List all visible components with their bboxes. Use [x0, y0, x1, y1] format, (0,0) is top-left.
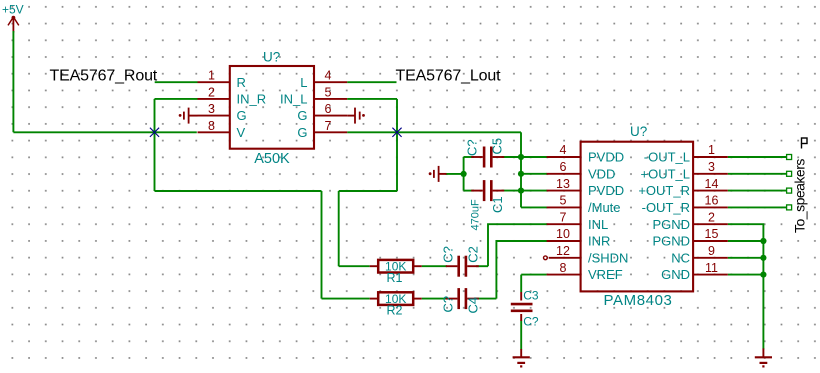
capacitor C5 — [465, 138, 505, 168]
wire C3 to ground — [520, 321, 522, 350]
capacitor C1 470uF — [470, 180, 506, 230]
svg-text:6: 6 — [560, 160, 567, 174]
capacitor at A50K pin 6 — [347, 108, 365, 124]
wire IN_R vertical drop — [154, 99, 156, 191]
svg-text:2: 2 — [708, 210, 715, 224]
wire pin 4 L to TEA5767_Lout — [347, 81, 396, 83]
wire C1 right lead — [502, 190, 522, 192]
speaker output pins — [787, 155, 792, 210]
svg-text:16: 16 — [705, 194, 719, 208]
junction PGND pin15 node — [760, 238, 766, 244]
capacitor C3 — [511, 288, 539, 328]
potentiometer U? A50K — [198, 50, 348, 168]
net label TEA5767_Lout — [396, 68, 502, 85]
svg-text:A50K: A50K — [254, 151, 290, 167]
wire C2 to riser — [476, 265, 488, 267]
wire IN_L vertical drop — [396, 99, 398, 191]
svg-text:PVDD: PVDD — [588, 183, 624, 198]
svg-text:C?: C? — [465, 139, 480, 156]
amplifier U? PAM8403 — [544, 124, 728, 309]
svg-text:4: 4 — [560, 143, 567, 157]
svg-text:+5V: +5V — [2, 3, 24, 17]
wire PGND pin 15 — [728, 240, 764, 242]
wire VDD pin 6 — [521, 173, 547, 175]
svg-text:3: 3 — [708, 160, 715, 174]
svg-text:8: 8 — [208, 119, 215, 133]
net label To_speakers — [792, 138, 808, 233]
junction PVDD pin4 node — [518, 154, 524, 160]
no-connect cross left — [150, 128, 159, 137]
junction VDD pin6 node — [518, 171, 524, 177]
svg-text:PGND: PGND — [652, 217, 690, 232]
wire supply bus drop to PAM — [520, 132, 522, 207]
wire IN_L down to R1 row — [338, 191, 340, 266]
wire NC pin 9 — [728, 257, 764, 259]
capacitor C4 — [441, 288, 481, 313]
svg-text:5: 5 — [560, 194, 567, 208]
wire +OUT_L to speaker — [728, 173, 787, 175]
svg-text:C2: C2 — [466, 246, 481, 263]
svg-text:PVDD: PVDD — [588, 150, 624, 165]
svg-text:12: 12 — [556, 244, 570, 258]
svg-text:NC: NC — [671, 250, 690, 265]
wire to R2 — [322, 298, 370, 300]
wire pin 5 IN_L horizontal — [347, 98, 397, 100]
svg-text:VREF: VREF — [588, 267, 623, 282]
svg-text:10: 10 — [556, 227, 570, 241]
svg-text:L: L — [300, 75, 307, 90]
svg-text:13: 13 — [556, 177, 570, 191]
svg-text:G: G — [297, 108, 307, 123]
svg-text:U?: U? — [263, 50, 280, 65]
wire VREF pin 8 — [521, 274, 546, 276]
wire +5V rail down — [12, 31, 14, 132]
svg-text:PGND: PGND — [652, 234, 690, 249]
ground at PAM8403 PGND — [755, 348, 772, 366]
junction cap bus left — [461, 171, 467, 177]
svg-text:C3: C3 — [523, 288, 539, 302]
resistor R1 10K — [370, 260, 422, 286]
svg-text:/Mute: /Mute — [588, 200, 621, 215]
wire C5 right lead — [502, 156, 522, 158]
svg-text:7: 7 — [325, 119, 332, 133]
wire C2 riser to INL — [488, 224, 547, 266]
wire -OUT_R to speaker — [728, 206, 787, 208]
wire 470uF cap to junction — [446, 173, 465, 175]
junction PVDD pin13 node — [518, 188, 524, 194]
svg-text:-OUT_L: -OUT_L — [644, 150, 690, 165]
svg-text:G: G — [237, 108, 247, 123]
wire PVDD pin 4 — [521, 156, 547, 158]
wire A50K pin 7 to supply bus — [347, 131, 521, 133]
power +5V symbol — [2, 3, 24, 33]
svg-text:2: 2 — [208, 85, 215, 99]
svg-text:V: V — [237, 125, 246, 140]
wire -OUT_L to speaker — [728, 156, 787, 158]
svg-text:+OUT_L: +OUT_L — [641, 166, 691, 181]
junction NC pin9 node — [760, 255, 766, 261]
svg-text:11: 11 — [705, 261, 718, 275]
wire C4 to riser — [476, 298, 496, 300]
wire cap left bus — [463, 157, 465, 191]
capacitor at A50K pin 3 — [179, 108, 198, 124]
svg-text:VDD: VDD — [588, 166, 615, 181]
wire C5 left lead — [464, 156, 474, 158]
wire to R1 — [339, 265, 370, 267]
svg-text:-OUT_R: -OUT_R — [642, 200, 690, 215]
svg-text:470uF: 470uF — [470, 199, 482, 230]
svg-text:GND: GND — [661, 267, 690, 282]
wire +OUT_R to speaker — [728, 190, 787, 192]
svg-text:7: 7 — [560, 210, 567, 224]
wire PGND pin 2 — [728, 224, 764, 349]
svg-text:9: 9 — [708, 244, 715, 258]
capacitor C2 — [441, 246, 481, 277]
svg-text:C4: C4 — [466, 297, 481, 314]
svg-text:/SHDN: /SHDN — [588, 250, 628, 265]
no-connect cross right — [392, 128, 401, 137]
svg-text:U?: U? — [630, 124, 647, 139]
svg-text:INR: INR — [588, 234, 610, 249]
wire GND pin 11 — [728, 274, 764, 276]
svg-text:R2: R2 — [387, 304, 403, 318]
svg-text:15: 15 — [705, 227, 719, 241]
svg-text:C?: C? — [441, 296, 456, 313]
svg-text:R: R — [237, 75, 246, 90]
wire IN_L across — [339, 190, 397, 192]
wire to /Mute pin 5 — [521, 206, 547, 208]
ground at C3 — [513, 349, 530, 366]
svg-text:C1: C1 — [490, 196, 505, 213]
svg-text:G: G — [297, 125, 307, 140]
svg-text:TEA5767_Rout: TEA5767_Rout — [50, 68, 158, 85]
wire R1 to C2 — [422, 265, 447, 267]
svg-text:4: 4 — [325, 69, 332, 83]
svg-text:IN_R: IN_R — [237, 92, 267, 107]
svg-text:To_speakers: To_speakers — [792, 159, 808, 233]
svg-text:C?: C? — [441, 246, 456, 263]
wire IN_R across — [155, 190, 322, 192]
svg-text:TEA5767_Lout: TEA5767_Lout — [396, 68, 502, 85]
svg-text:14: 14 — [705, 177, 719, 191]
net label TEA5767_Rout — [50, 68, 158, 85]
svg-text:6: 6 — [325, 102, 332, 116]
wire C4 riser to INR — [496, 241, 547, 299]
capacitor CP 470uF polarized plate — [429, 166, 447, 182]
wire IN_R down to R2 row — [321, 191, 323, 299]
svg-text:8: 8 — [560, 261, 567, 275]
wire VREF down to C3 — [520, 275, 522, 292]
wire pin 2 IN_R horizontal — [155, 98, 198, 100]
svg-text:+OUT_R: +OUT_R — [638, 183, 690, 198]
svg-text:INL: INL — [588, 217, 608, 232]
svg-text:PAM8403: PAM8403 — [604, 292, 673, 309]
svg-text:C?: C? — [523, 314, 539, 328]
svg-text:5: 5 — [325, 85, 332, 99]
svg-text:IN_L: IN_L — [280, 92, 307, 107]
svg-text:1: 1 — [208, 69, 215, 83]
wire C1 left lead — [464, 190, 474, 192]
svg-text:1: 1 — [708, 143, 715, 157]
svg-text:C5: C5 — [490, 138, 505, 155]
wire +5V rail to A50K pin 8 — [13, 131, 196, 133]
wire TEA5767_Rout to pin 1 — [155, 81, 198, 83]
junction GND pin11 node — [760, 272, 766, 278]
wire R2 to C4 — [422, 298, 447, 300]
svg-text:R1: R1 — [387, 271, 403, 285]
wire PVDD pin 13 — [521, 190, 547, 192]
svg-text:3: 3 — [208, 102, 215, 116]
resistor R2 10K — [370, 292, 422, 318]
